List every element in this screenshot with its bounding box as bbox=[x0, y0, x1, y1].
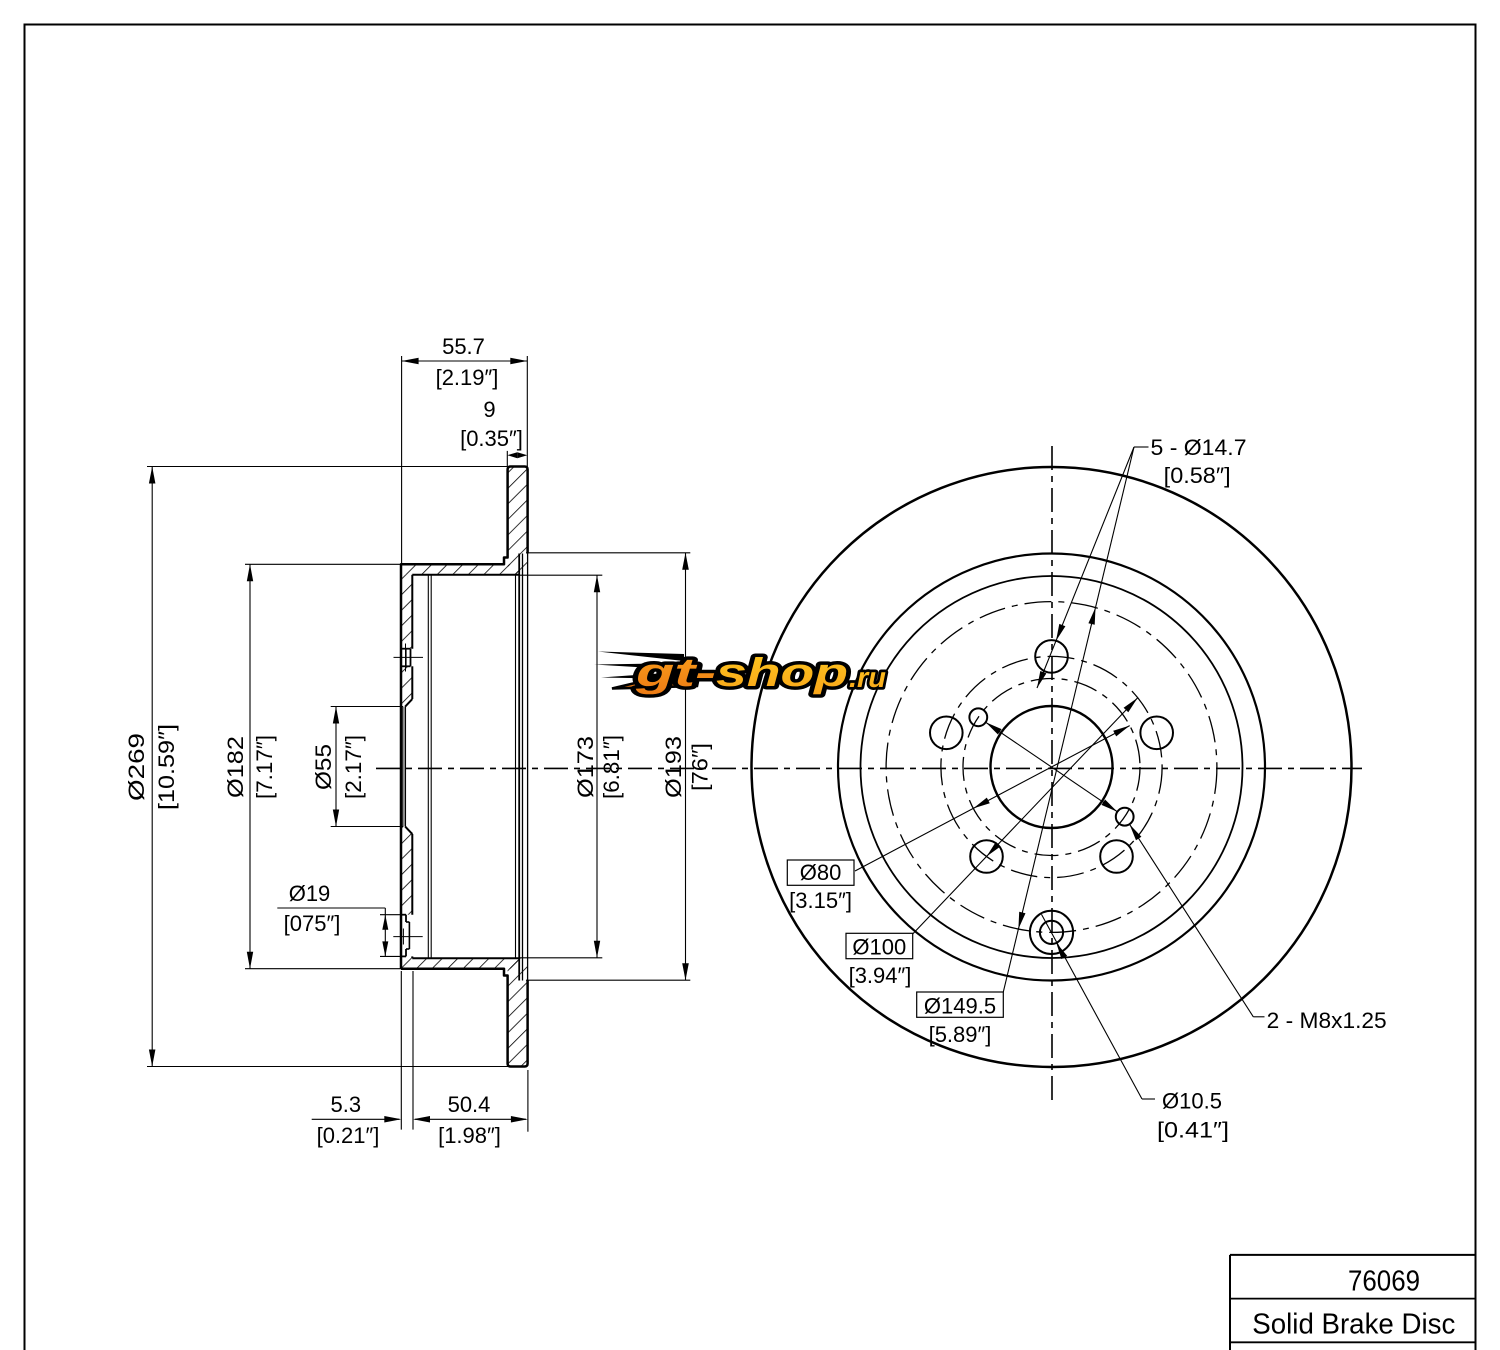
svg-text:[7.17″]: [7.17″] bbox=[252, 735, 277, 799]
svg-text:[0.58″]: [0.58″] bbox=[1164, 463, 1231, 488]
svg-text:[3.94″]: [3.94″] bbox=[849, 963, 912, 988]
dim Ø173 bbox=[519, 574, 603, 576]
leader line Ø149.5 (through center) bbox=[1003, 447, 1134, 992]
svg-text:76069: 76069 bbox=[1348, 1266, 1420, 1298]
svg-text:55.7: 55.7 bbox=[442, 334, 485, 359]
svg-text:gt-: gt- bbox=[634, 651, 716, 695]
svg-text:2 - M8x1.25: 2 - M8x1.25 bbox=[1267, 1008, 1387, 1033]
boxed label Ø149.5 bbox=[917, 992, 1004, 1017]
svg-text:[3.15″]: [3.15″] bbox=[789, 888, 852, 913]
svg-text:Ø193: Ø193 bbox=[661, 736, 686, 798]
svg-text:[2.17″]: [2.17″] bbox=[341, 735, 366, 799]
svg-text:[6.81″]: [6.81″] bbox=[599, 735, 624, 799]
leader 2 - M8x1.25 bbox=[1130, 824, 1254, 1017]
5 stud holes Ø14.7 on Ø100 bbox=[1035, 640, 1068, 673]
speed spikes bbox=[598, 652, 684, 662]
svg-text:9: 9 bbox=[483, 397, 495, 422]
svg-text:[10.59″]: [10.59″] bbox=[154, 724, 179, 810]
2 service holes M8 on Ø80 bbox=[969, 708, 987, 726]
bolt circle Ø100 (phantom) bbox=[941, 656, 1162, 877]
svg-text:Ø100: Ø100 bbox=[852, 935, 906, 960]
svg-text:Ø149.5: Ø149.5 bbox=[924, 994, 996, 1019]
dim 55.7 (top) bbox=[401, 356, 403, 564]
bolt circle Ø149.5 (phantom) bbox=[886, 602, 1217, 933]
hub bore Ø55 bbox=[991, 706, 1113, 828]
svg-text:Ø19: Ø19 bbox=[289, 881, 331, 906]
svg-text:[2.19″]: [2.19″] bbox=[436, 365, 499, 390]
svg-text:Ø173: Ø173 bbox=[573, 736, 598, 798]
svg-text:[76″]: [76″] bbox=[688, 743, 713, 791]
boxed label Ø80 bbox=[787, 860, 854, 885]
bore counterbore visible edges bbox=[427, 575, 429, 958]
svg-text:Ø182: Ø182 bbox=[223, 736, 248, 798]
bolt circle Ø80 (phantom) bbox=[963, 679, 1140, 856]
disc outer face edge (thin, between sections) bbox=[527, 554, 529, 981]
svg-text:Ø10.5: Ø10.5 bbox=[1162, 1089, 1222, 1114]
dim Ø193 bbox=[526, 552, 690, 554]
svg-text:shop: shop bbox=[716, 651, 848, 695]
dim Ø182 bbox=[245, 563, 401, 565]
friction band outer edge Ø193 bbox=[838, 554, 1265, 981]
gt-shop.ru watermark logo bbox=[594, 651, 886, 695]
leader line to stud hole bbox=[1037, 447, 1134, 688]
set screw hole Ø10.5 with Ø19 counterbore bbox=[1040, 921, 1063, 944]
brake disc section outline (upper) bbox=[401, 467, 528, 969]
leader: 5 - Ø14.7 text bbox=[1134, 446, 1149, 448]
hat interior edges bbox=[412, 574, 519, 576]
brake disc section outline (lower) bbox=[401, 969, 528, 1067]
svg-text:[1.98″]: [1.98″] bbox=[438, 1123, 501, 1148]
svg-text:Solid Brake Disc: Solid Brake Disc bbox=[1252, 1309, 1455, 1341]
hub bore Ø55 chamfers and bore lines bbox=[405, 699, 412, 707]
boxed label Ø100 bbox=[846, 933, 913, 958]
section view: hatched regions bbox=[508, 467, 528, 575]
top stud hole in hat wall (section) bbox=[401, 648, 411, 650]
svg-text:5.3: 5.3 bbox=[331, 1092, 362, 1117]
svg-text:[5.89″]: [5.89″] bbox=[929, 1022, 992, 1047]
svg-text:Ø269: Ø269 bbox=[124, 733, 149, 801]
dim Ø269 bbox=[147, 466, 508, 468]
svg-text:Ø80: Ø80 bbox=[800, 860, 842, 885]
leader Ø10.5 bbox=[1042, 914, 1143, 1099]
M8 axis line with arrows bbox=[986, 722, 1118, 811]
disc outer circle Ø269 bbox=[752, 467, 1352, 1067]
svg-text:[075″]: [075″] bbox=[284, 911, 341, 936]
disc face step lines (Ø193 / Ø173 edges) bbox=[515, 575, 517, 958]
friction band inner edge Ø173 bbox=[861, 576, 1243, 958]
leader Ø100 (through center) bbox=[913, 698, 1138, 934]
svg-text:50.4: 50.4 bbox=[448, 1092, 491, 1117]
leader Ø80 (through center) bbox=[855, 726, 1130, 871]
front view vertical centerline bbox=[1051, 446, 1053, 1103]
dim Ø55 bbox=[331, 706, 403, 708]
svg-text:.ru: .ru bbox=[849, 662, 886, 693]
svg-text:[0.41″]: [0.41″] bbox=[1157, 1118, 1229, 1143]
title block bbox=[1230, 1254, 1476, 1256]
main horizontal centerline bbox=[376, 767, 1362, 769]
svg-text:[0.35″]: [0.35″] bbox=[460, 426, 523, 451]
svg-text:Ø55: Ø55 bbox=[311, 744, 336, 790]
svg-text:5 - Ø14.7: 5 - Ø14.7 bbox=[1151, 435, 1247, 460]
bottom Ø19 hole in hat wall (section) bbox=[401, 914, 406, 916]
dim 5.3 / 50.4 (bottom) bbox=[400, 971, 402, 1130]
svg-text:[0.21″]: [0.21″] bbox=[317, 1123, 380, 1148]
